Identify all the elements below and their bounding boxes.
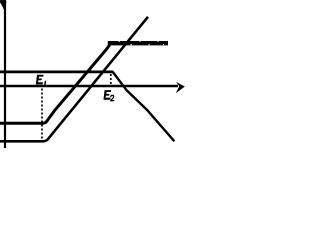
thick transfer curve: upper flat — [108, 41, 168, 45]
horizontal axis — [0, 82, 185, 93]
thin parallel characteristic line — [0, 17, 148, 142]
descending line from peak corner — [112, 72, 174, 142]
label E2 letter E — [103, 90, 111, 100]
dotted vertical at E1 — [41, 89, 43, 141]
label E1 letter E — [36, 75, 44, 85]
vertical axis — [0, 0, 6, 148]
label E1 subscript 1 — [44, 80, 46, 86]
thin horizontal input-level line — [0, 71, 113, 74]
thick transfer curve: lower flat + ramp — [0, 44, 111, 124]
dotted vertical at E2 — [110, 74, 112, 85]
label E2 subscript 2 — [110, 95, 114, 101]
